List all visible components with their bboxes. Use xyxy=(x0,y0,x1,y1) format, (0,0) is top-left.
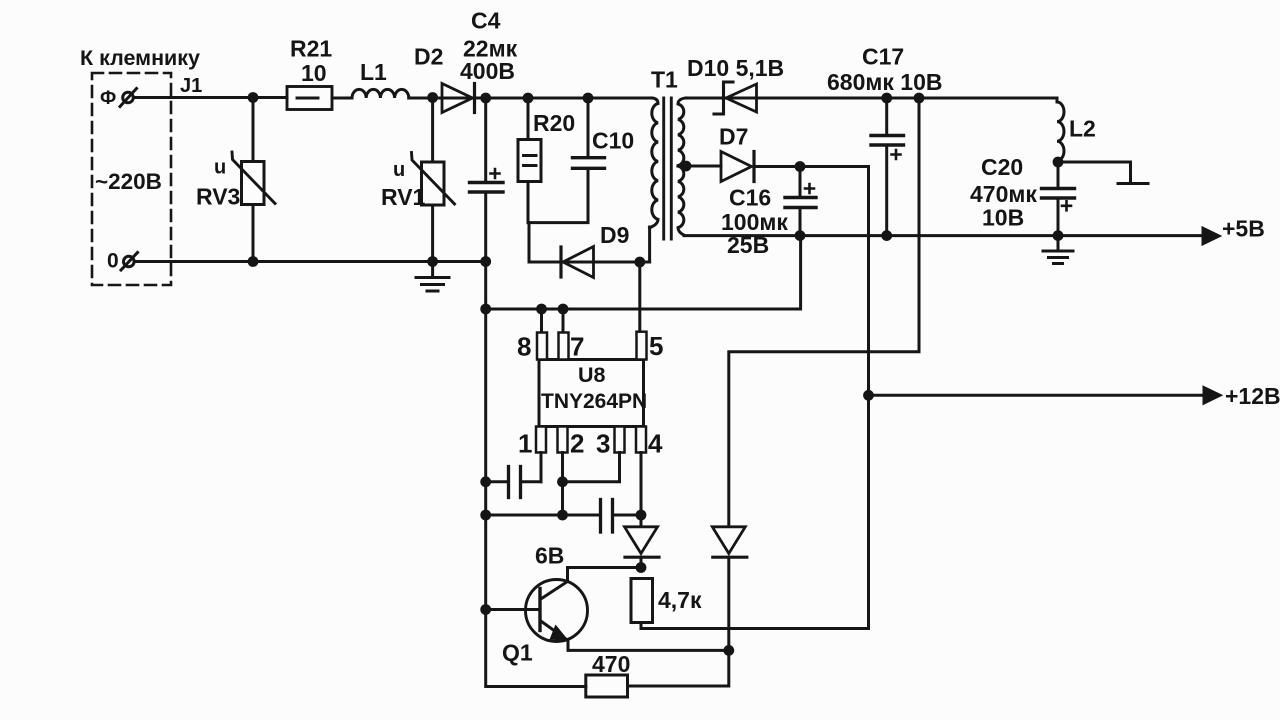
wire xyxy=(332,97,352,100)
wire xyxy=(409,97,652,100)
wire secondary bottom rail xyxy=(684,234,1203,237)
resistor R20 xyxy=(527,98,530,140)
T1 secondary tap wire xyxy=(678,165,721,168)
node top rail C17 xyxy=(881,93,892,104)
svg-text:+12В: +12В xyxy=(1225,383,1280,409)
capacitor at pin4 xyxy=(486,514,599,517)
svg-text:6В: 6В xyxy=(535,543,564,569)
node bottom rail RV1 xyxy=(427,256,438,267)
left rail vertical from C4 bottom to bottom wire xyxy=(486,262,586,687)
T1 core xyxy=(662,98,665,239)
svg-text:25В: 25В xyxy=(727,232,769,258)
capacitor C16 xyxy=(799,167,802,196)
node pin8 xyxy=(536,304,547,315)
node top rail RV3 xyxy=(248,92,259,103)
capacitor at pin1 xyxy=(486,480,507,483)
svg-text:0: 0 xyxy=(107,250,119,273)
emitter arrowhead xyxy=(550,625,570,642)
T1 primary winding xyxy=(650,98,658,228)
svg-text:D9: D9 xyxy=(600,222,629,248)
wire +12В vertical xyxy=(867,167,870,629)
wire 470 to emitter node xyxy=(628,650,729,686)
node diode/4,7к xyxy=(636,562,647,573)
node top rail feedback xyxy=(914,93,925,104)
ground at C20 xyxy=(1057,236,1060,251)
wire bottom AC rail xyxy=(134,260,485,263)
inductor L1 xyxy=(352,89,409,98)
zener diode D10 xyxy=(726,84,757,112)
wire top rail secondary xyxy=(686,97,1057,100)
svg-text:D10 5,1В: D10 5,1В xyxy=(687,55,784,81)
capacitor C4 xyxy=(484,98,487,181)
svg-text:8: 8 xyxy=(517,332,531,362)
svg-text:u: u xyxy=(214,157,226,179)
pin 2 xyxy=(558,427,568,453)
transistor Q1 xyxy=(526,580,588,642)
chassis stub right of L2 xyxy=(1058,162,1131,184)
node top rail RV1/D2 xyxy=(427,92,438,103)
svg-text:Ф: Ф xyxy=(100,88,116,109)
svg-text:L1: L1 xyxy=(360,59,387,85)
node left rail bus309 xyxy=(480,304,491,315)
svg-text:C20: C20 xyxy=(981,154,1023,180)
node C20 bottom xyxy=(1053,230,1064,241)
svg-text:R21: R21 xyxy=(290,36,332,62)
pin 5 xyxy=(637,332,647,360)
varistor RV3 xyxy=(252,98,255,161)
ground at RV1 xyxy=(431,262,434,278)
node D9 primary xyxy=(634,257,645,268)
svg-text:J1: J1 xyxy=(180,75,202,97)
svg-text:C10: C10 xyxy=(592,128,634,154)
IC U8 TNY264PN xyxy=(539,360,644,427)
wire R20/C10 down to D9 line xyxy=(529,223,650,262)
diode below pin 4 xyxy=(625,527,658,554)
node +12В tap xyxy=(863,390,874,401)
svg-text:T1: T1 xyxy=(651,67,678,93)
diode D9 xyxy=(563,247,594,278)
node L2 bottom xyxy=(1053,157,1064,168)
svg-text:5: 5 xyxy=(649,331,663,361)
resistor R21 xyxy=(287,87,332,110)
svg-text:C16: C16 xyxy=(729,185,771,211)
node cap1 left xyxy=(480,476,491,487)
svg-text:1: 1 xyxy=(518,429,532,459)
node C16 top xyxy=(795,161,806,172)
svg-text:470мк: 470мк xyxy=(970,181,1037,207)
svg-text:400В: 400В xyxy=(460,58,515,84)
node C16 bottom xyxy=(795,230,806,241)
resistor 4,7к xyxy=(631,579,653,623)
diode D2 xyxy=(442,84,473,113)
wire bus y=309 from left rail to C16 bottom xyxy=(486,236,801,309)
svg-text:Q1: Q1 xyxy=(502,640,533,666)
wire transformer primary bottom riser xyxy=(648,227,651,262)
diode D7 xyxy=(721,152,752,182)
inductor L2 xyxy=(1057,98,1064,162)
svg-text:RV3: RV3 xyxy=(196,184,240,210)
node bottom rail C4 xyxy=(480,256,491,267)
pin 3 xyxy=(615,427,625,453)
node emitter/470 xyxy=(723,645,734,656)
resistor 470 xyxy=(586,675,628,697)
wire 4,7к bottom to +12В vertical xyxy=(641,623,869,629)
svg-text:C17: C17 xyxy=(862,44,904,70)
node pin2/pin3 xyxy=(557,476,568,487)
svg-text:RV1: RV1 xyxy=(381,184,426,210)
svg-text:TNY264PN: TNY264PN xyxy=(541,390,647,413)
node base left rail xyxy=(480,604,491,615)
pin 8 xyxy=(540,309,543,333)
svg-text:U8: U8 xyxy=(578,363,606,387)
wire D7 output xyxy=(755,165,869,168)
svg-text:2: 2 xyxy=(570,429,584,459)
pin 7 xyxy=(562,309,565,333)
pin 4 xyxy=(636,427,646,453)
svg-text:+5В: +5В xyxy=(1222,216,1265,242)
capacitor C10 xyxy=(587,98,590,156)
node C17 bottom xyxy=(881,230,892,241)
node D9/primary junction to pin5 xyxy=(638,262,641,332)
plus sign C4 xyxy=(491,169,500,178)
svg-text:D7: D7 xyxy=(719,124,748,150)
capacitor C20 xyxy=(1057,162,1060,187)
svg-text:~220В: ~220В xyxy=(95,169,162,194)
capacitor C17 xyxy=(885,98,888,134)
svg-text:10: 10 xyxy=(301,60,327,86)
output +12В arrow xyxy=(869,394,1204,397)
svg-text:680мк 10В: 680мк 10В xyxy=(827,69,942,95)
svg-text:7: 7 xyxy=(570,332,584,362)
node pin7 xyxy=(558,304,569,315)
svg-text:470: 470 xyxy=(592,651,630,677)
node top rail C10 xyxy=(583,93,594,104)
pin 1 xyxy=(536,427,546,453)
svg-text:4: 4 xyxy=(648,429,663,459)
node pin2 cap2 xyxy=(557,510,568,521)
node cap2 pin4 xyxy=(636,510,647,521)
svg-text:L2: L2 xyxy=(1069,116,1096,142)
svg-text:R20: R20 xyxy=(533,110,575,136)
svg-text:C4: C4 xyxy=(471,8,501,34)
terminal block J1 dashed box xyxy=(92,73,171,285)
svg-text:3: 3 xyxy=(596,429,610,459)
output +5В arrow xyxy=(1203,228,1221,245)
wire right feedback vertical from top rail xyxy=(729,98,919,526)
wire top rail left xyxy=(134,96,288,99)
varistor RV1 xyxy=(431,98,434,162)
node cap2 left rail xyxy=(480,510,491,521)
svg-text:10В: 10В xyxy=(982,205,1024,231)
node top rail R20 xyxy=(523,93,534,104)
svg-text:u: u xyxy=(393,159,405,181)
svg-text:К клемнику: К клемнику xyxy=(80,46,200,70)
T1 secondary winding lower xyxy=(678,166,684,235)
svg-text:4,7к: 4,7к xyxy=(658,587,702,613)
svg-text:D2: D2 xyxy=(414,44,443,70)
node top rail C4 xyxy=(480,93,491,104)
node T1 tap xyxy=(681,161,692,172)
feedback diode (right) xyxy=(712,527,745,554)
T1 secondary winding upper xyxy=(678,98,686,166)
node bottom rail RV3 xyxy=(248,256,259,267)
